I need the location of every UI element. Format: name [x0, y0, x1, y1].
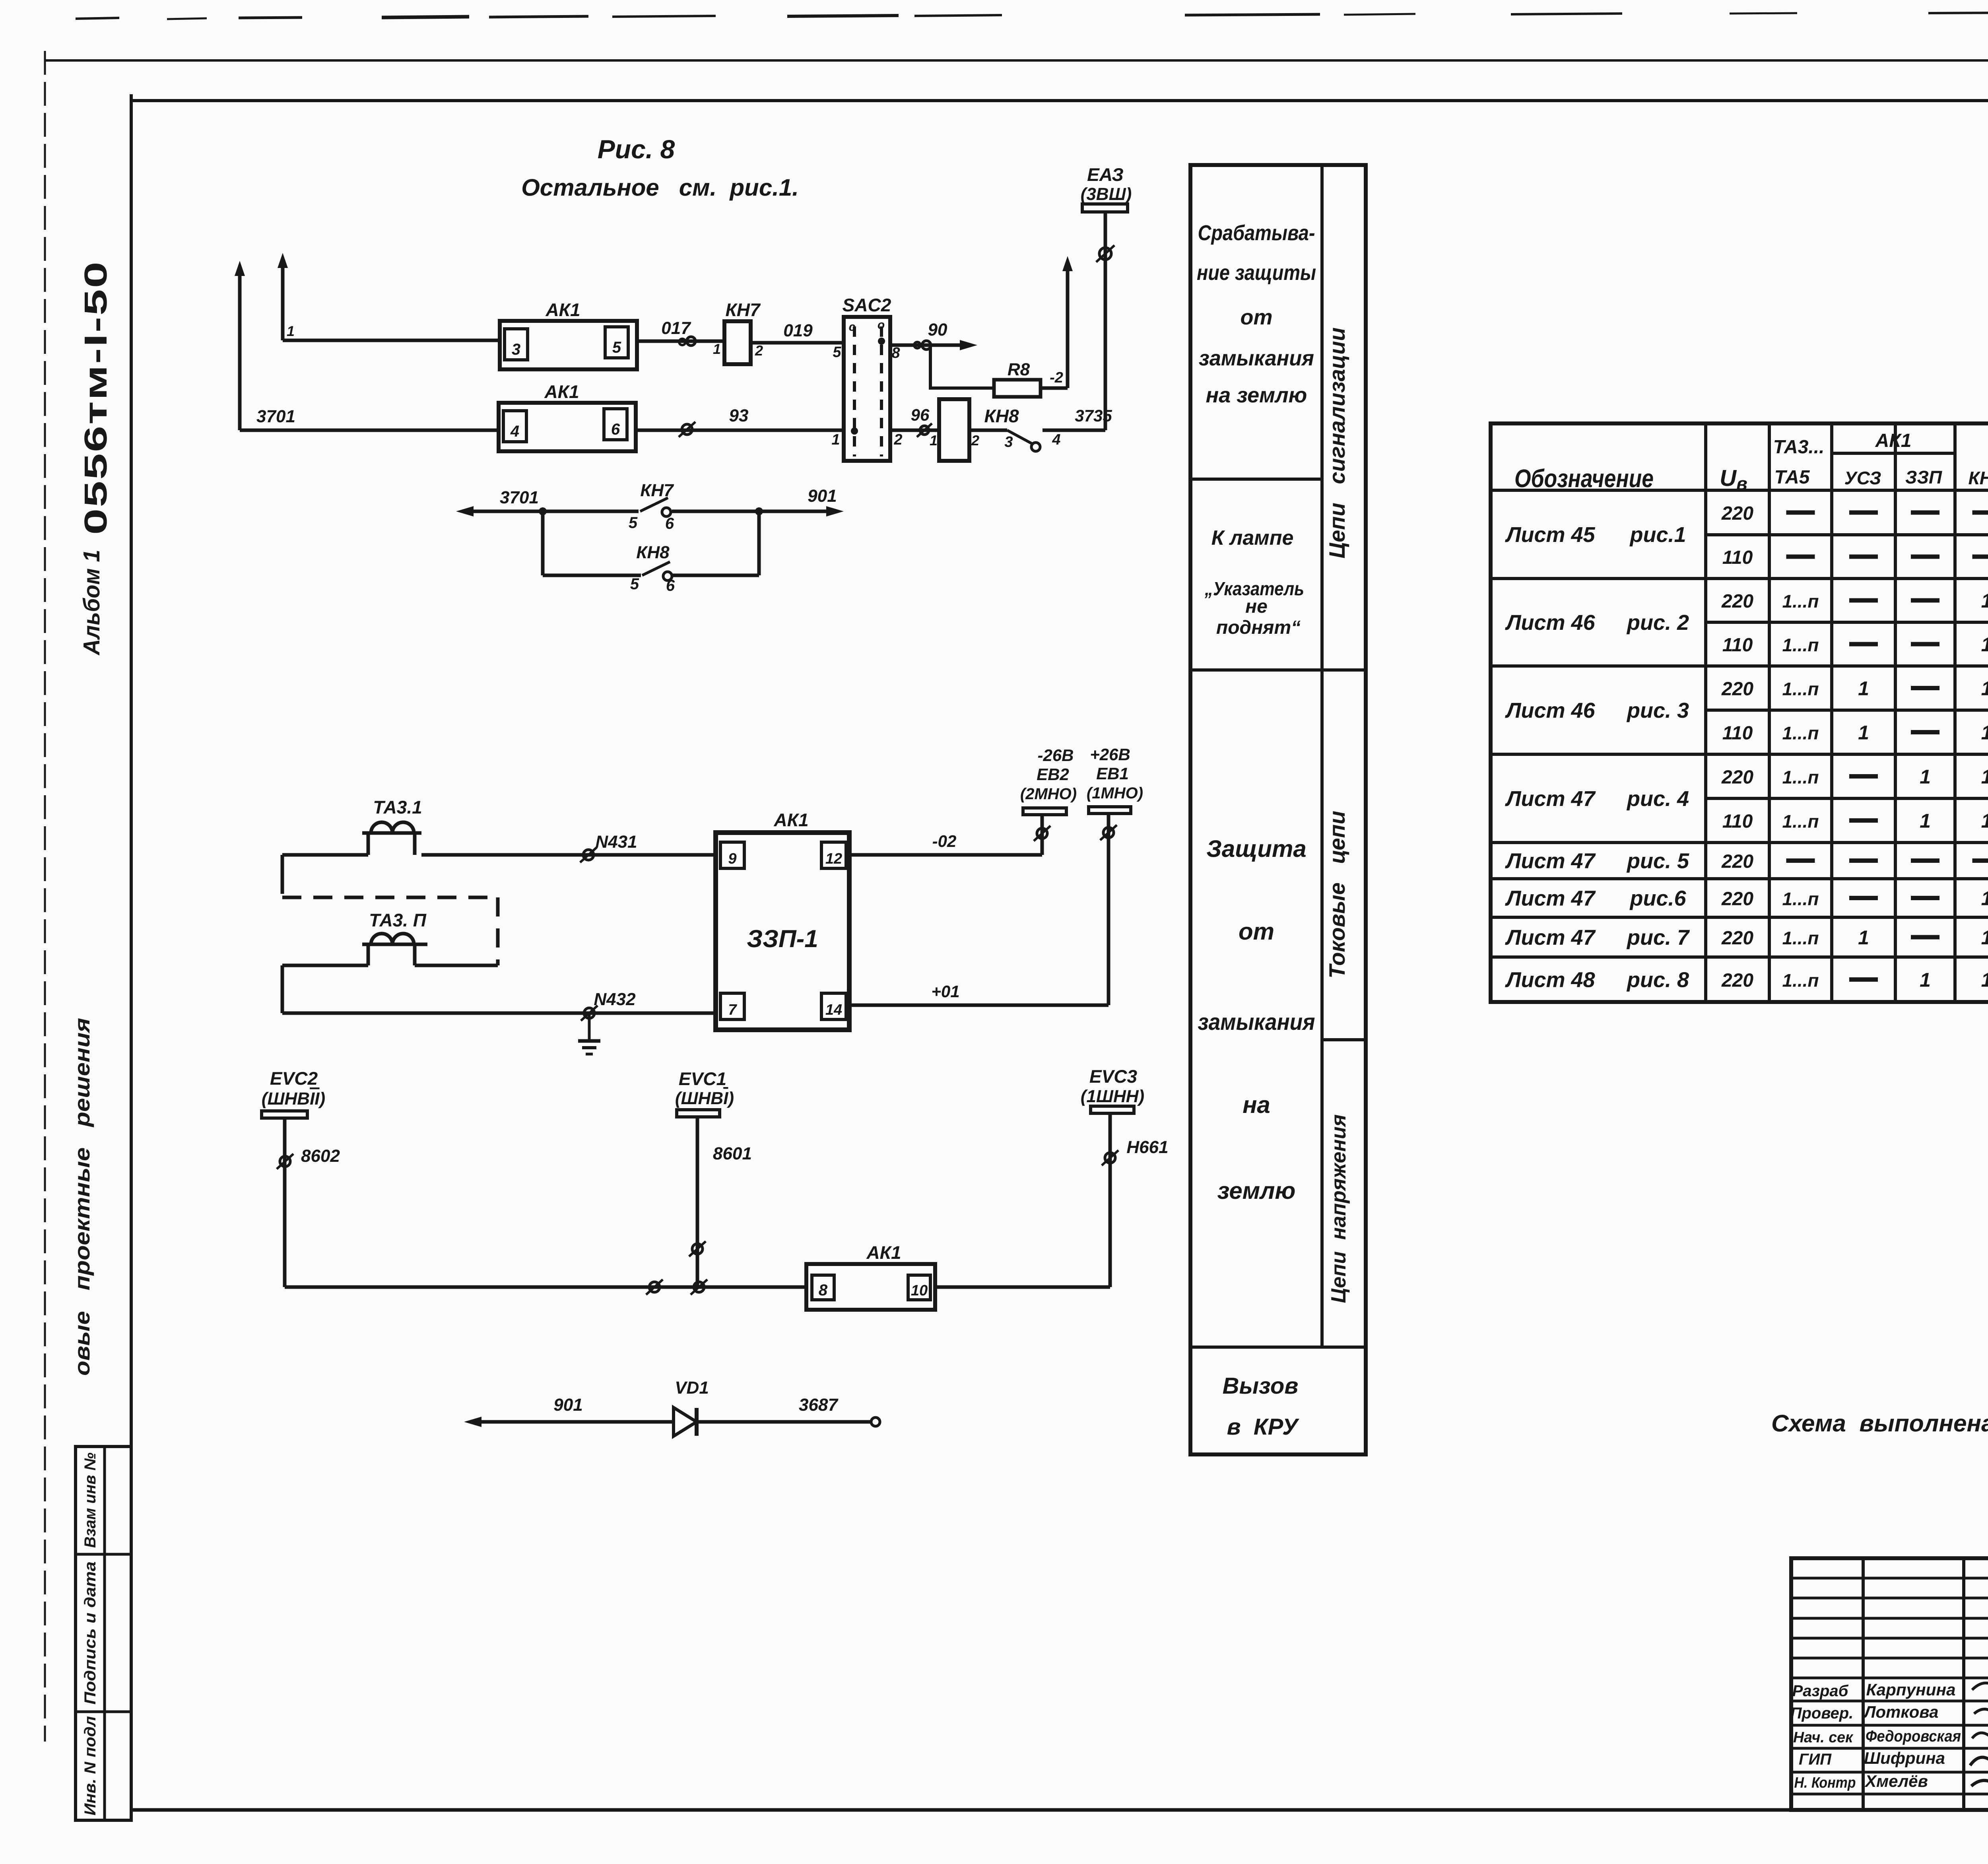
svg-text:1...п: 1...п	[1782, 811, 1819, 832]
wire N432	[282, 990, 716, 1013]
svg-text:VD1: VD1	[675, 1378, 709, 1398]
button contact KH8 (pins 5-6)	[630, 543, 675, 594]
svg-text:1: 1	[1981, 678, 1988, 700]
current transformer TA3.1	[362, 797, 422, 855]
svg-text:SAC2: SAC2	[843, 295, 891, 315]
busbar EB2 (2МНО) -26В	[1020, 746, 1077, 815]
connector on voltage wire	[646, 1280, 663, 1295]
svg-text:рис. 7: рис. 7	[1626, 926, 1690, 949]
svg-text:Провер.: Провер.	[1790, 1705, 1854, 1722]
wire 8601	[697, 1117, 752, 1287]
svg-text:220: 220	[1721, 591, 1753, 612]
svg-text:93: 93	[729, 406, 749, 425]
svg-text:о: о	[878, 318, 885, 332]
svg-text:Взам инв №: Взам инв №	[82, 1452, 99, 1548]
svg-text:КН7: КН7	[725, 299, 761, 320]
svg-text:АК1: АК1	[866, 1242, 901, 1263]
svg-text:Шифрина: Шифрина	[1864, 1749, 1945, 1767]
connector on EB2 drop	[1034, 826, 1050, 841]
svg-text:5: 5	[629, 514, 638, 532]
connector on N431	[580, 847, 597, 862]
button KH7 (series, pins 1-2)	[713, 299, 763, 364]
wire 1: vertical stub with up arrow to AK1 pin 3	[278, 253, 500, 340]
svg-text:+26В: +26В	[1090, 745, 1130, 764]
svg-text:6: 6	[665, 515, 674, 532]
svg-text:Срабатыва-: Срабатыва-	[1198, 221, 1315, 245]
svg-text:-02: -02	[932, 832, 957, 850]
svg-text:220: 220	[1721, 889, 1753, 910]
svg-text:3: 3	[512, 341, 520, 358]
svg-text:110: 110	[1722, 635, 1753, 656]
svg-text:от: от	[1239, 918, 1274, 945]
svg-text:(1ШНН): (1ШНН)	[1081, 1087, 1144, 1106]
table row values	[1721, 503, 1988, 991]
svg-text:Нач. сек: Нач. сек	[1793, 1729, 1854, 1746]
svg-text:ЕАЗ: ЕАЗ	[1087, 164, 1124, 185]
svg-text:1...п: 1...п	[1782, 723, 1819, 744]
svg-text:220: 220	[1721, 928, 1753, 949]
svg-text:1...п: 1...п	[1782, 591, 1819, 612]
wire from EA3 down to KH8 contact 4	[1104, 212, 1107, 430]
svg-text:Цепи напряжения: Цепи напряжения	[1327, 1115, 1350, 1303]
connector at EVC1 junction	[691, 1280, 707, 1295]
busbar EA3 (3ВШ)	[1081, 164, 1132, 212]
parallel branch wires	[543, 511, 759, 575]
svg-text:Подпись и дата: Подпись и дата	[82, 1561, 99, 1705]
svg-text:1: 1	[1920, 766, 1931, 788]
svg-text:110: 110	[1722, 811, 1753, 832]
svg-text:96: 96	[911, 406, 930, 424]
svg-text:(3ВШ): (3ВШ)	[1081, 184, 1132, 204]
svg-text:0556тм-I-50: 0556тм-I-50	[78, 260, 113, 535]
bottom horizontal voltage wire	[285, 1285, 1110, 1289]
svg-text:1: 1	[1858, 722, 1869, 744]
wire -2 with up arrow	[1041, 256, 1073, 388]
svg-text:1...п: 1...п	[1782, 767, 1819, 788]
svg-text:Хмелёв: Хмелёв	[1864, 1772, 1928, 1790]
svg-text:Федоровская: Федоровская	[1866, 1728, 1961, 1745]
svg-text:Лист 47: Лист 47	[1505, 887, 1596, 911]
svg-text:1...п: 1...п	[1782, 970, 1819, 991]
legend column frame	[1190, 165, 1366, 1454]
wire 3687 with terminal circle	[697, 1395, 880, 1426]
wire 96	[890, 406, 939, 430]
branch wire to resistor R8	[930, 345, 994, 388]
svg-text:8601: 8601	[713, 1144, 752, 1163]
svg-text:ЕВ2: ЕВ2	[1037, 765, 1069, 784]
svg-text:1: 1	[1981, 810, 1988, 832]
svg-text:Схема выполнена на листах: Схема выполнена на листах 45, 46, 47, 48…	[1771, 1410, 1988, 1437]
svg-text:АК1: АК1	[545, 299, 580, 320]
svg-text:EVC3: EVC3	[1089, 1066, 1138, 1087]
wire 8602	[285, 1118, 340, 1287]
svg-text:5: 5	[630, 575, 639, 593]
svg-text:УСЗ: УСЗ	[1844, 468, 1881, 488]
svg-text:Лист 46: Лист 46	[1505, 699, 1595, 722]
svg-text:КН8: КН8	[636, 543, 670, 562]
svg-text:1: 1	[1858, 926, 1869, 949]
svg-text:019: 019	[783, 321, 813, 340]
svg-text:Лоткова: Лоткова	[1863, 1703, 1939, 1721]
svg-text:4: 4	[510, 423, 519, 440]
svg-text:замыкания: замыкания	[1199, 346, 1314, 370]
button contact KH7 (pins 5-6)	[629, 481, 674, 532]
svg-text:1: 1	[1981, 590, 1988, 612]
relay AK1 / ЗЗП-1 unit	[716, 810, 849, 1030]
svg-text:3701: 3701	[500, 488, 539, 507]
svg-text:Лист 47: Лист 47	[1505, 926, 1596, 949]
svg-text:901: 901	[553, 1395, 582, 1415]
busbar EVC2 (ШНВ II)	[262, 1068, 325, 1118]
svg-text:(ШНВII): (ШНВII)	[262, 1089, 325, 1109]
svg-text:рис. 4: рис. 4	[1626, 787, 1689, 811]
svg-text:4: 4	[1052, 431, 1060, 448]
svg-text:14: 14	[825, 1002, 842, 1018]
svg-text:ТА3...: ТА3...	[1773, 437, 1825, 458]
svg-text:2: 2	[755, 342, 763, 359]
title block staff labels	[1790, 1682, 1856, 1791]
relay block AK1 (pins 4,6)	[499, 381, 636, 451]
connector pair on wire 017	[679, 337, 695, 346]
svg-text:на землю: на землю	[1206, 383, 1307, 407]
svg-text:8602: 8602	[301, 1146, 340, 1166]
connector on wire Н661	[1102, 1150, 1118, 1165]
svg-text:1: 1	[1920, 810, 1931, 832]
svg-text:ЕВ1: ЕВ1	[1096, 764, 1129, 783]
svg-text:ГИП: ГИП	[1799, 1751, 1832, 1768]
switch SAC2	[831, 295, 902, 461]
svg-text:КН8: КН8	[984, 406, 1019, 426]
svg-text:1: 1	[287, 323, 295, 339]
svg-text:3701: 3701	[256, 407, 295, 426]
table row group labels	[1505, 523, 1690, 992]
svg-text:N431: N431	[595, 832, 637, 852]
svg-text:(2МНО): (2МНО)	[1020, 785, 1077, 803]
svg-text:1: 1	[1858, 678, 1869, 700]
svg-text:Лист 47: Лист 47	[1505, 849, 1596, 873]
svg-text:ние защиты: ние защиты	[1197, 261, 1316, 285]
svg-text:3: 3	[1004, 434, 1013, 450]
legend cell: Вызов в КРУ	[1223, 1373, 1299, 1440]
svg-text:5: 5	[833, 344, 841, 361]
svg-text:ЗЗП-1: ЗЗП-1	[747, 925, 818, 953]
wire -02	[849, 815, 1042, 855]
svg-text:1: 1	[1981, 633, 1988, 656]
svg-text:ТА3. П: ТА3. П	[369, 910, 427, 930]
ground symbol	[578, 1013, 600, 1054]
svg-text:+01: +01	[931, 982, 959, 1001]
svg-text:017: 017	[661, 318, 691, 338]
svg-text:ТА3.1: ТА3.1	[373, 797, 422, 817]
svg-text:Остальное см. рис.1.: Остальное см. рис.1.	[521, 174, 799, 201]
svg-text:не: не	[1245, 596, 1268, 617]
relay block AK1 (pins 3,5)	[500, 299, 637, 369]
svg-text:Uв: Uв	[1720, 465, 1747, 494]
svg-text:220: 220	[1721, 970, 1753, 991]
wire +01	[849, 814, 1109, 1005]
connector on EA3 wire	[1096, 245, 1114, 262]
svg-text:Защита: Защита	[1206, 835, 1306, 862]
svg-text:1: 1	[1981, 766, 1988, 788]
svg-text:EVC2: EVC2	[270, 1068, 318, 1089]
svg-text:9: 9	[728, 850, 736, 867]
svg-text:АК1: АК1	[1875, 430, 1912, 451]
svg-text:Лист 47: Лист 47	[1505, 787, 1596, 811]
svg-text:рис. 8: рис. 8	[1626, 968, 1689, 992]
svg-text:7: 7	[728, 1002, 737, 1018]
svg-text:на: на	[1242, 1091, 1270, 1118]
primary loop wires TA3.П	[282, 965, 498, 1013]
busbar EB1 (1МНО) +26В	[1087, 745, 1143, 814]
wire N431	[421, 832, 716, 855]
dashed link to TA3.П	[282, 897, 498, 965]
svg-text:R8: R8	[1008, 360, 1030, 379]
junction node left	[539, 507, 547, 515]
svg-text:1...п: 1...п	[1782, 889, 1819, 909]
svg-text:(1МНО): (1МНО)	[1087, 784, 1143, 802]
svg-text:901: 901	[808, 486, 837, 506]
svg-text:5: 5	[612, 339, 621, 356]
svg-text:рис. 3: рис. 3	[1626, 699, 1689, 722]
wire 90 with right arrow	[890, 320, 977, 350]
wire 901 with left arrow	[464, 1395, 674, 1427]
resistor R8	[994, 360, 1041, 397]
svg-text:1...п: 1...п	[1782, 679, 1819, 699]
svg-text:220: 220	[1721, 767, 1753, 788]
svg-text:220: 220	[1721, 503, 1753, 524]
svg-text:-2: -2	[1050, 369, 1063, 386]
wire 019	[751, 321, 844, 343]
busbar EVC1 (ШНВ I)	[675, 1068, 734, 1117]
signatures	[1970, 1683, 1988, 1803]
svg-text:Н661: Н661	[1126, 1138, 1168, 1157]
relay block AK1 (pins 8,10)	[806, 1242, 935, 1310]
svg-text:N432: N432	[594, 990, 636, 1009]
svg-text:К лампе: К лампе	[1211, 526, 1294, 549]
svg-text:Обозначение: Обозначение	[1514, 464, 1654, 493]
svg-text:2: 2	[893, 431, 902, 448]
svg-text:замыкания: замыкания	[1198, 1009, 1315, 1035]
svg-text:КН8: КН8	[1968, 468, 1988, 488]
svg-text:Токовые цепи: Токовые цепи	[1324, 811, 1349, 979]
svg-text:рис. 5: рис. 5	[1626, 849, 1689, 873]
svg-text:поднят“: поднят“	[1216, 617, 1301, 638]
button KH8 (series, pins 1-2) with contact 3-4	[930, 399, 1112, 461]
svg-text:от: от	[1241, 305, 1273, 329]
wire Н661	[1110, 1113, 1169, 1287]
title block staff names	[1863, 1680, 1961, 1790]
svg-text:1: 1	[930, 432, 938, 449]
busbar EVC3 (1ШНН)	[1081, 1066, 1144, 1113]
svg-text:1...п: 1...п	[1782, 635, 1819, 655]
svg-text:8: 8	[819, 1281, 828, 1299]
svg-text:1: 1	[1981, 969, 1988, 991]
scan noise along top edge	[76, 11, 1988, 19]
svg-text:220: 220	[1721, 679, 1753, 700]
svg-text:110: 110	[1722, 723, 1753, 744]
svg-text:АК1: АК1	[773, 810, 808, 830]
wire 93	[636, 406, 844, 430]
primary loop wires TA3.1	[282, 855, 368, 894]
connector pair on wire 90	[914, 341, 931, 349]
svg-text:1: 1	[1981, 926, 1988, 949]
svg-text:в КРУ: в КРУ	[1227, 1414, 1299, 1440]
svg-text:Рис. 8: Рис. 8	[598, 134, 675, 164]
connector on wire 93	[679, 422, 695, 437]
svg-text:1...п: 1...п	[1782, 928, 1819, 948]
table header texts	[1514, 430, 1988, 494]
svg-text:Лист 45: Лист 45	[1505, 523, 1595, 547]
svg-text:Лист 48: Лист 48	[1505, 968, 1595, 992]
svg-text:EVC1: EVC1	[679, 1068, 726, 1089]
svg-text:Цепи сигнализации: Цепи сигнализации	[1324, 327, 1349, 558]
svg-text:Н. Контр: Н. Контр	[1794, 1775, 1856, 1791]
svg-text:90: 90	[928, 320, 947, 340]
svg-text:10: 10	[911, 1282, 928, 1299]
legend cell: Защита от замыкания на землю	[1198, 835, 1315, 1204]
svg-text:8: 8	[891, 345, 900, 361]
connector on N432	[581, 1006, 598, 1021]
svg-text:3687: 3687	[799, 1395, 839, 1415]
diode VD1	[674, 1378, 709, 1436]
wire 3701-901 with arrows both ends	[456, 486, 844, 516]
svg-text:рис.6: рис.6	[1629, 887, 1686, 911]
title block frame	[1791, 1558, 1988, 1810]
svg-text:Лист 46: Лист 46	[1505, 611, 1595, 635]
svg-text:1: 1	[1981, 722, 1988, 744]
svg-text:-26В: -26В	[1037, 746, 1074, 765]
svg-text:рис. 2: рис. 2	[1626, 611, 1689, 635]
svg-text:(ШНВI): (ШНВI)	[675, 1089, 734, 1108]
svg-text:овые проектные решения: овые проектные решения	[70, 1018, 94, 1376]
svg-text:1: 1	[713, 341, 721, 357]
svg-text:КН7: КН7	[640, 481, 674, 500]
executions table grid	[1491, 423, 1988, 1002]
svg-text:1: 1	[1981, 887, 1988, 910]
svg-text:Инв. N подл: Инв. N подл	[82, 1716, 99, 1815]
svg-text:1: 1	[1920, 969, 1931, 991]
wire 017	[637, 318, 724, 341]
svg-text:2: 2	[971, 432, 979, 449]
wire 3701 vertical stub with up arrow to AK1 pin 4	[235, 261, 499, 430]
svg-text:110: 110	[1722, 547, 1753, 568]
legend cell: К лампе Указатель не поднят	[1204, 526, 1304, 638]
svg-text:землю: землю	[1217, 1177, 1296, 1204]
connector on wire 96	[917, 423, 932, 437]
svg-text:рис.1: рис.1	[1629, 523, 1686, 547]
connector on EB1 drop	[1100, 825, 1117, 840]
svg-text:Разраб: Разраб	[1792, 1682, 1849, 1700]
svg-text:Вызов: Вызов	[1223, 1373, 1299, 1399]
current transformer TA3.П	[362, 910, 427, 965]
legend cell: Срабатывание защиты от замыкания на землю	[1197, 221, 1316, 407]
svg-text:Альбом 1: Альбом 1	[79, 550, 105, 656]
svg-text:6: 6	[666, 577, 675, 594]
svg-text:12: 12	[825, 850, 842, 867]
junction node right	[755, 507, 763, 515]
connector on wire 8601	[689, 1241, 706, 1256]
svg-text:3735: 3735	[1075, 406, 1112, 425]
svg-text:ТА5: ТА5	[1774, 467, 1810, 488]
left margin stamp box	[76, 1447, 131, 1820]
svg-text:6: 6	[611, 421, 620, 438]
svg-text:АК1: АК1	[544, 381, 579, 402]
svg-text:Карпунина: Карпунина	[1866, 1680, 1956, 1699]
svg-text:с: с	[849, 320, 856, 334]
svg-text:1: 1	[831, 431, 840, 448]
svg-text:220: 220	[1721, 851, 1753, 872]
connector on wire 8602	[277, 1154, 293, 1169]
svg-text:ЗЗП: ЗЗП	[1905, 467, 1942, 487]
